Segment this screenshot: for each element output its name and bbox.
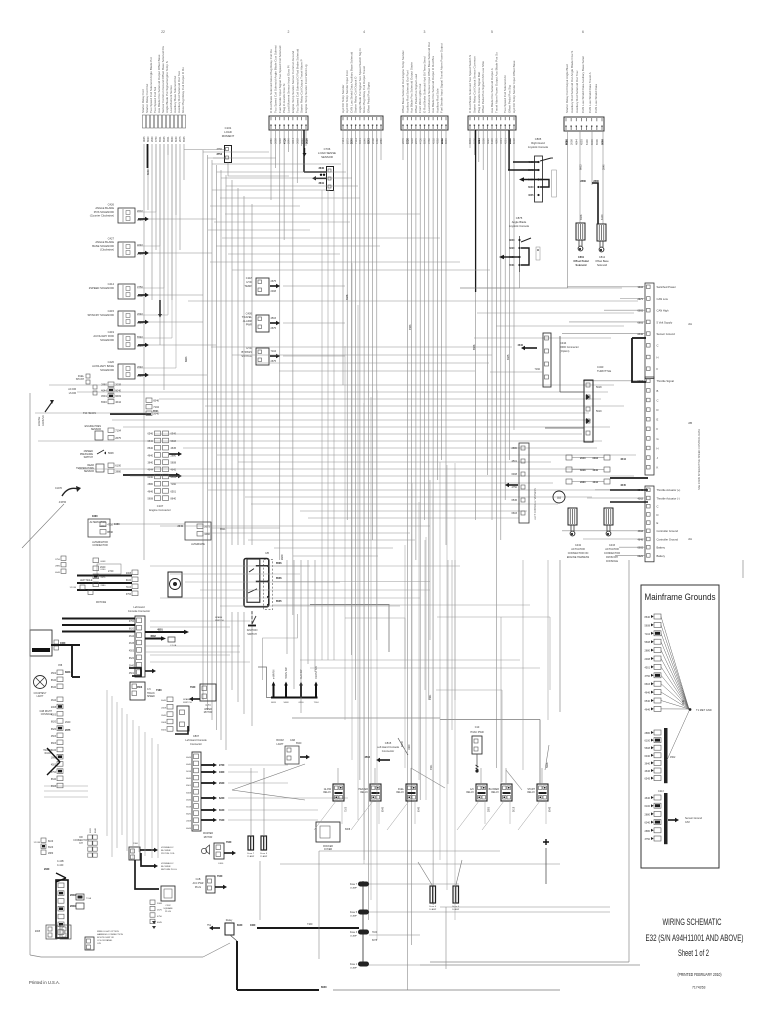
svg-text:(Counter Clockwise): (Counter Clockwise): [90, 214, 114, 218]
svg-text:6603: 6603: [185, 356, 188, 362]
svg-text:Solenoid: Solenoid: [576, 263, 587, 267]
svg-text:4645: 4645: [171, 447, 177, 450]
svg-text:Offset Pedal Pos Signal CAN Lo: Offset Pedal Pos Signal CAN Low Shie: [481, 61, 485, 113]
svg-text:C1070: C1070: [55, 487, 63, 490]
svg-text:J/A: J/A: [688, 322, 692, 326]
svg-text:LIGHT: LIGHT: [276, 743, 284, 746]
svg-text:C213: C213: [658, 790, 664, 793]
svg-text:1680: 1680: [114, 523, 120, 526]
svg-text:6540: 6540: [137, 335, 143, 339]
svg-text:SWITCH: SWITCH: [183, 702, 192, 704]
svg-text:C58: C58: [58, 665, 63, 667]
svg-text:CONNECTION: CONNECTION: [73, 840, 89, 842]
svg-text:SQUARE: SQUARE: [163, 907, 173, 910]
svg-text:Auxiliary Rod Solenoid Out Ang: Auxiliary Rod Solenoid Out Angle Blade C…: [570, 51, 574, 113]
svg-text:8640: 8640: [171, 498, 177, 501]
svg-text:C434: C434: [560, 341, 567, 345]
svg-text:(Option): (Option): [560, 349, 570, 353]
svg-text:2880: 2880: [147, 483, 153, 486]
svg-text:Left Hand: Left Hand: [133, 605, 145, 609]
svg-text:RETURN PLUG: RETURN PLUG: [161, 869, 177, 871]
svg-text:HYD: HYD: [246, 280, 252, 284]
svg-text:Offset Pedal Pos Sig: Offset Pedal Pos Sig: [508, 85, 512, 113]
svg-text:6100: 6100: [601, 214, 604, 220]
svg-text:SWITCH: SWITCH: [247, 633, 257, 636]
svg-text:3: 3: [424, 30, 426, 34]
svg-text:6540: 6540: [644, 700, 650, 703]
svg-text:15 AMP: 15 AMP: [350, 967, 358, 970]
svg-text:4646: 4646: [644, 770, 650, 773]
svg-text:TEMP: TEMP: [245, 284, 253, 288]
svg-text:BOOM: BOOM: [276, 739, 283, 742]
svg-text:CAN Low Shield Data Auxiliary: CAN Low Shield Data Auxiliary Base Solen: [581, 55, 585, 113]
svg-text:C302: C302: [165, 905, 171, 907]
svg-text:4646: 4646: [644, 692, 650, 695]
svg-text:AC DM: AC DM: [68, 388, 76, 391]
svg-text:12 DM: 12 DM: [34, 842, 41, 844]
svg-text:Console Connector: Console Connector: [128, 609, 150, 613]
svg-text:4502: 4502: [137, 209, 143, 213]
svg-text:3754: 3754: [216, 153, 222, 156]
svg-text:LEFT CONSOLE HARNESS: LEFT CONSOLE HARNESS: [534, 488, 537, 520]
svg-text:Engine Temp Sender Front Work: Engine Temp Sender Front Work Lig: [304, 64, 308, 113]
svg-text:CONNECTOR: CONNECTOR: [604, 552, 620, 555]
svg-text:Sheet 1 of 2: Sheet 1 of 2: [678, 948, 709, 958]
svg-text:C-100: C-100: [57, 865, 64, 867]
svg-text:RELAY: RELAY: [491, 791, 499, 794]
svg-text:7160: 7160: [534, 368, 540, 371]
svg-text:6545: 6545: [276, 600, 282, 603]
svg-text:C861: C861: [578, 255, 585, 259]
svg-text:4501: 4501: [644, 666, 650, 669]
svg-text:8640: 8640: [51, 687, 57, 689]
svg-text:Sensor Ground: Sensor Ground: [685, 817, 703, 820]
svg-text:7040: 7040: [217, 875, 223, 878]
svg-text:2740: 2740: [219, 764, 225, 767]
svg-text:H: H: [657, 355, 659, 359]
svg-text:1660: 1660: [219, 771, 225, 774]
svg-text:6545: 6545: [550, 806, 552, 812]
svg-text:7160: 7160: [307, 923, 313, 926]
svg-text:8640: 8640: [171, 136, 174, 142]
svg-text:B: B: [657, 389, 659, 393]
svg-text:E: E: [657, 521, 659, 525]
svg-text:4501: 4501: [129, 673, 135, 675]
svg-text:6501: 6501: [186, 785, 192, 787]
svg-text:2880: 2880: [580, 179, 586, 183]
svg-text:2880: 2880: [115, 470, 121, 474]
svg-text:CAN Low Shield Data: CAN Low Shield Data: [594, 84, 598, 113]
svg-text:6501: 6501: [220, 528, 226, 531]
svg-text:2640: 2640: [153, 412, 159, 416]
svg-text:6603: 6603: [51, 743, 57, 745]
svg-text:8640: 8640: [95, 827, 97, 833]
svg-text:3750: 3750: [55, 559, 61, 561]
svg-text:C815: C815: [385, 741, 392, 745]
svg-text:2880: 2880: [644, 732, 650, 735]
svg-text:6240: 6240: [219, 797, 225, 800]
svg-text:6506: 6506: [595, 139, 599, 145]
svg-text:C409: C409: [246, 311, 253, 315]
svg-text:10 AMP: 10 AMP: [452, 908, 460, 911]
svg-text:5618: 5618: [596, 386, 602, 389]
svg-text:6620: 6620: [48, 847, 54, 849]
svg-text:C420: C420: [108, 360, 115, 364]
svg-text:3640: 3640: [318, 167, 324, 170]
svg-text:4501: 4501: [101, 394, 107, 398]
svg-text:4504: 4504: [364, 756, 370, 759]
svg-text:TRAVEL: TRAVEL: [242, 315, 253, 319]
svg-text:2008: 2008: [161, 722, 167, 724]
svg-text:Solenoid: Solenoid: [597, 263, 608, 267]
svg-text:2675: 2675: [204, 525, 210, 529]
svg-text:SAE J1939 INTERACTIVE SPEED CO: SAE J1939 INTERACTIVE SPEED CONTROL DATA: [697, 429, 701, 490]
svg-text:ACC PWR: ACC PWR: [193, 882, 204, 885]
svg-text:BLOWER: BLOWER: [161, 866, 171, 868]
svg-text:5608: 5608: [171, 440, 177, 443]
svg-text:7160: 7160: [156, 689, 162, 692]
svg-text:3750: 3750: [644, 675, 650, 678]
svg-text:6008: 6008: [345, 829, 351, 831]
svg-text:2880: 2880: [644, 830, 650, 833]
svg-text:7040: 7040: [219, 819, 225, 822]
svg-text:1660: 1660: [408, 744, 411, 750]
svg-text:ENGINE: ENGINE: [38, 416, 41, 426]
svg-text:2675: 2675: [101, 577, 107, 579]
svg-text:6545: 6545: [183, 136, 186, 142]
svg-text:8640: 8640: [186, 778, 192, 780]
svg-text:Auxiliary Rod Solenoid Out Tra: Auxiliary Rod Solenoid Out Trav: [575, 70, 579, 113]
svg-text:RELAY: RELAY: [360, 791, 368, 794]
svg-text:Sensor Ground: Sensor Ground: [657, 332, 676, 336]
svg-text:4502: 4502: [150, 635, 156, 638]
svg-text:RELAY: RELAY: [466, 791, 474, 794]
svg-text:6040: 6040: [644, 822, 650, 825]
svg-text:E32 (S/N A94H11001 AND ABOVE): E32 (S/N A94H11001 AND ABOVE): [646, 933, 744, 943]
svg-text:6620: 6620: [271, 702, 277, 704]
svg-text:CAN Low Shield Data Travel A: CAN Low Shield Data Travel A: [588, 72, 592, 113]
svg-text:C432: C432: [575, 544, 582, 547]
svg-text:HYDRAULIC: HYDRAULIC: [161, 846, 174, 849]
svg-text:H: H: [657, 446, 659, 450]
svg-text:(PRINTED FEBRUARY 2010): (PRINTED FEBRUARY 2010): [678, 972, 722, 977]
svg-text:2008: 2008: [600, 139, 604, 145]
svg-text:1660: 1660: [204, 532, 210, 536]
svg-text:6540: 6540: [296, 742, 302, 745]
svg-text:2740: 2740: [108, 570, 114, 573]
svg-text:Controller Ground: Controller Ground: [657, 537, 679, 541]
svg-text:Fuse 5: Fuse 5: [260, 853, 267, 855]
svg-text:2640: 2640: [603, 164, 606, 170]
svg-text:Connector: Connector: [190, 742, 202, 746]
svg-text:Aux Blade Pos Solenoid Output: Aux Blade Pos Solenoid Output A: [490, 68, 494, 113]
svg-text:Starter Relay Coil Output Sens: Starter Relay Coil Output Sensor Common: [472, 56, 476, 113]
svg-text:5619: 5619: [596, 410, 602, 413]
svg-text:SOLENOID: SOLENOID: [100, 368, 114, 372]
svg-text:15 AMP: 15 AMP: [260, 855, 268, 858]
svg-text:POS SOLENOID: POS SOLENOID: [94, 210, 114, 214]
svg-text:2640: 2640: [44, 868, 50, 871]
svg-text:SWITCH: SWITCH: [215, 620, 224, 622]
svg-text:BASE SOLENOID: BASE SOLENOID: [92, 244, 114, 248]
svg-text:C/B: C/B: [97, 943, 101, 945]
svg-text:45 W: 45 W: [401, 741, 404, 747]
svg-text:4501: 4501: [167, 136, 170, 142]
svg-text:C/M: C/M: [685, 821, 690, 824]
svg-text:IGNITION: IGNITION: [247, 629, 258, 632]
svg-text:Offset Pedal Pos Signa: Offset Pedal Pos Signa: [366, 82, 370, 113]
svg-text:CONNECTOR ON: CONNECTOR ON: [568, 552, 589, 555]
svg-text:G: G: [657, 437, 659, 441]
svg-text:6545: 6545: [511, 499, 517, 502]
svg-text:AUXILIARY ROD: AUXILIARY ROD: [93, 334, 114, 338]
svg-text:2008: 2008: [157, 903, 163, 905]
svg-text:6620: 6620: [51, 722, 57, 724]
svg-text:6546: 6546: [276, 577, 282, 580]
svg-text:7040: 7040: [226, 841, 232, 844]
svg-text:ROCKER: ROCKER: [323, 846, 333, 848]
svg-text:2675: 2675: [115, 436, 121, 440]
svg-text:BLOWER: BLOWER: [161, 850, 171, 852]
svg-text:C427: C427: [108, 236, 115, 240]
svg-text:4750: 4750: [107, 523, 113, 527]
svg-text:SENSOR: SENSOR: [91, 428, 101, 431]
svg-text:MOTOR: MOTOR: [204, 712, 213, 714]
svg-text:Offset Pedal: Offset Pedal: [573, 259, 588, 263]
svg-text:C-73: C-73: [206, 705, 212, 707]
svg-text:15 AMP: 15 AMP: [247, 855, 255, 858]
svg-text:4645: 4645: [507, 354, 510, 360]
svg-text:C433: C433: [597, 365, 604, 369]
svg-text:MOTOR: MOTOR: [204, 837, 213, 839]
svg-text:6040: 6040: [321, 986, 327, 989]
svg-text:CAB RIGHT: CAB RIGHT: [39, 710, 52, 713]
svg-text:O Rod Brake Solenoid Two Speed: O Rod Brake Solenoid Two Speed Switch S: [468, 55, 472, 113]
svg-text:6008: 6008: [186, 792, 192, 794]
svg-text:Hyd Oil Temp Sender Input Offs: Hyd Oil Temp Sender Input Offset Base: [512, 60, 516, 113]
svg-text:C426: C426: [108, 202, 115, 206]
svg-text:4503: 4503: [137, 686, 143, 689]
svg-text:6545: 6545: [644, 778, 650, 781]
svg-text:5608: 5608: [284, 702, 290, 704]
svg-text:Fuse 5: Fuse 5: [350, 912, 358, 914]
svg-text:SWITCH: SWITCH: [84, 456, 94, 459]
svg-text:4502: 4502: [670, 756, 676, 759]
svg-text:6546: 6546: [153, 399, 159, 403]
svg-text:Controller Ground: Controller Ground: [657, 529, 679, 533]
svg-text:6620: 6620: [509, 247, 515, 250]
svg-text:4501: 4501: [157, 629, 163, 632]
svg-text:6100: 6100: [51, 750, 57, 752]
svg-text:3641: 3641: [318, 182, 324, 185]
svg-text:8640: 8640: [509, 239, 515, 242]
svg-text:Mainframe Grounds: Mainframe Grounds: [645, 592, 716, 603]
svg-text:7104: 7104: [644, 633, 650, 636]
svg-text:2880: 2880: [489, 806, 491, 812]
svg-text:2: 2: [288, 30, 290, 34]
svg-text:8640: 8640: [107, 530, 113, 534]
svg-text:PLUG: PLUG: [195, 887, 201, 889]
svg-text:4645: 4645: [346, 294, 349, 300]
svg-text:SENSOR: SENSOR: [84, 470, 94, 473]
svg-text:2640: 2640: [151, 136, 154, 142]
svg-text:2880: 2880: [101, 585, 107, 587]
svg-text:2880: 2880: [55, 566, 61, 568]
svg-text:Offset Base: Offset Base: [595, 259, 609, 263]
svg-text:3750: 3750: [51, 772, 57, 774]
svg-text:6040: 6040: [147, 169, 150, 175]
svg-text:6040: 6040: [644, 755, 650, 758]
svg-text:C: C: [657, 505, 659, 509]
svg-text:ALTERNATOR: ALTERNATOR: [90, 521, 107, 524]
svg-text:ACTUATOR: ACTUATOR: [571, 548, 585, 551]
svg-text:2880: 2880: [101, 383, 107, 387]
svg-text:Fuse 3: Fuse 3: [350, 932, 358, 934]
svg-text:SWITCH: SWITCH: [241, 354, 252, 358]
svg-text:D: D: [657, 513, 659, 517]
svg-text:(Clockwise): (Clockwise): [100, 248, 114, 252]
svg-text:2008: 2008: [186, 821, 192, 823]
svg-text:4646: 4646: [644, 708, 650, 711]
svg-text:6620: 6620: [129, 658, 135, 660]
svg-text:3750: 3750: [137, 285, 143, 289]
svg-text:2SPEED SOLENOID: 2SPEED SOLENOID: [89, 286, 114, 290]
svg-text:6506: 6506: [406, 138, 410, 144]
svg-text:PLUG: PLUG: [165, 911, 171, 913]
svg-text:6008: 6008: [101, 561, 107, 563]
svg-text:2640: 2640: [137, 365, 143, 369]
svg-text:10 AMP: 10 AMP: [429, 908, 437, 911]
svg-text:Throttle Actuator (-): Throttle Actuator (-): [657, 496, 680, 500]
svg-text:2008: 2008: [161, 707, 167, 709]
svg-text:6040: 6040: [419, 806, 421, 812]
svg-text:CONSOLE: CONSOLE: [41, 714, 53, 716]
svg-text:6546: 6546: [147, 433, 153, 436]
svg-text:2880: 2880: [644, 813, 650, 816]
svg-text:4: 4: [363, 30, 365, 34]
svg-text:SOLENOID: SOLENOID: [100, 338, 114, 342]
svg-text:2640: 2640: [177, 525, 183, 528]
svg-text:2675: 2675: [65, 729, 71, 732]
svg-text:AUXILIARY BASE: AUXILIARY BASE: [92, 364, 114, 368]
svg-text:Plug In Hands Free Signal Batt: Plug In Hands Free Signal Batt: [477, 72, 481, 113]
svg-text:CAN High: CAN High: [657, 309, 669, 313]
svg-text:6100: 6100: [585, 139, 589, 145]
svg-text:4645: 4645: [129, 643, 135, 645]
svg-text:RELAY: RELAY: [323, 791, 331, 794]
svg-text:KIT: KIT: [79, 843, 83, 845]
svg-text:Left Hand Console: Left Hand Console: [377, 745, 400, 749]
svg-text:4503: 4503: [409, 324, 412, 330]
svg-text:RELAY: RELAY: [396, 791, 404, 794]
svg-text:4501: 4501: [429, 694, 432, 700]
svg-text:6501: 6501: [509, 264, 515, 267]
svg-text:C107: C107: [157, 504, 164, 508]
svg-text:Fuel Sender Input Signal Trave: Fuel Sender Input Signal Travel Alarm Po…: [440, 43, 444, 113]
svg-text:WIRE LIGHT OPTION: WIRE LIGHT OPTION: [97, 931, 119, 933]
svg-text:CAN Low: CAN Low: [657, 297, 668, 301]
svg-text:2675: 2675: [271, 327, 277, 330]
svg-text:GND: GND: [683, 700, 685, 705]
svg-text:Fuse 1: Fuse 1: [350, 964, 358, 966]
svg-text:e-WARN: e-WARN: [273, 669, 276, 679]
svg-text:Travel Alarm Power Output Aux: Travel Alarm Power Output Aux Blade Pos …: [494, 52, 498, 113]
svg-text:7160: 7160: [171, 483, 177, 486]
svg-text:4644: 4644: [186, 828, 192, 830]
svg-text:4640: 4640: [186, 764, 192, 766]
svg-text:4750: 4750: [511, 486, 517, 489]
svg-text:Fuse 7: Fuse 7: [350, 884, 358, 886]
svg-text:2880: 2880: [511, 447, 517, 450]
svg-text:CONNECTOR: CONNECTOR: [92, 544, 108, 547]
svg-text:4646: 4646: [186, 799, 192, 801]
svg-text:WIPER: WIPER: [204, 709, 212, 711]
svg-text:8640: 8640: [51, 779, 57, 781]
svg-text:15 AMP: 15 AMP: [350, 887, 358, 890]
svg-text:6501: 6501: [171, 490, 177, 493]
svg-text:HORN SW: HORN SW: [285, 667, 288, 679]
svg-text:Joystick Console: Joystick Console: [509, 224, 530, 228]
svg-text:6603: 6603: [511, 512, 517, 515]
svg-text:6008: 6008: [511, 473, 517, 476]
svg-text:7174263: 7174263: [692, 986, 706, 990]
svg-text:DR: DR: [79, 837, 83, 839]
svg-text:6040: 6040: [175, 136, 178, 142]
svg-text:7104: 7104: [314, 702, 320, 704]
svg-text:3750: 3750: [644, 838, 650, 841]
svg-text:K: K: [657, 466, 659, 470]
svg-text:2880: 2880: [48, 853, 54, 855]
svg-text:5608: 5608: [644, 624, 650, 627]
svg-text:HARNESS CONNECTION: HARNESS CONNECTION: [97, 933, 123, 936]
svg-text:Fuse 4: Fuse 4: [429, 906, 436, 908]
svg-text:4644: 4644: [186, 757, 192, 759]
svg-text:C-10B: C-10B: [57, 861, 64, 863]
svg-text:6546: 6546: [473, 344, 476, 350]
svg-text:Joystick Console: Joystick Console: [528, 145, 549, 149]
svg-text:6545: 6545: [163, 136, 166, 142]
svg-text:5608: 5608: [108, 452, 114, 455]
svg-text:6506: 6506: [161, 730, 167, 732]
svg-text:LS DM: LS DM: [69, 392, 76, 395]
svg-text:4644: 4644: [115, 400, 121, 404]
svg-text:7040: 7040: [190, 686, 196, 689]
svg-text:2675: 2675: [271, 280, 277, 283]
svg-text:C415: C415: [108, 309, 115, 313]
svg-text:6040: 6040: [237, 924, 243, 927]
svg-text:6620: 6620: [147, 136, 150, 142]
svg-text:GROUND: GROUND: [42, 415, 45, 426]
svg-text:Two Speed Coil Solenoid An: Two Speed Coil Solenoid An: [503, 75, 507, 113]
svg-text:15 AMP: 15 AMP: [350, 915, 358, 918]
svg-text:6100: 6100: [299, 702, 305, 704]
svg-text:Printed in U.S.A.: Printed in U.S.A.: [29, 980, 60, 985]
svg-text:5608: 5608: [147, 498, 153, 501]
svg-text:FRONT SW: FRONT SW: [315, 666, 318, 679]
svg-text:7104: 7104: [115, 429, 121, 433]
svg-text:SPARE: SPARE: [183, 698, 191, 701]
svg-text:2640: 2640: [65, 721, 71, 724]
svg-text:Left Hand Console: Left Hand Console: [185, 738, 207, 742]
svg-text:5618: 5618: [186, 771, 192, 773]
svg-text:6546: 6546: [101, 400, 107, 404]
svg-text:SPINCRY SOLENOID: SPINCRY SOLENOID: [88, 313, 115, 317]
svg-text:5 Volt Supply: 5 Volt Supply: [657, 320, 673, 324]
svg-text:4646: 4646: [147, 490, 153, 493]
svg-text:M: M: [557, 495, 560, 500]
svg-text:4501: 4501: [511, 460, 517, 463]
svg-text:C118: C118: [246, 276, 253, 280]
